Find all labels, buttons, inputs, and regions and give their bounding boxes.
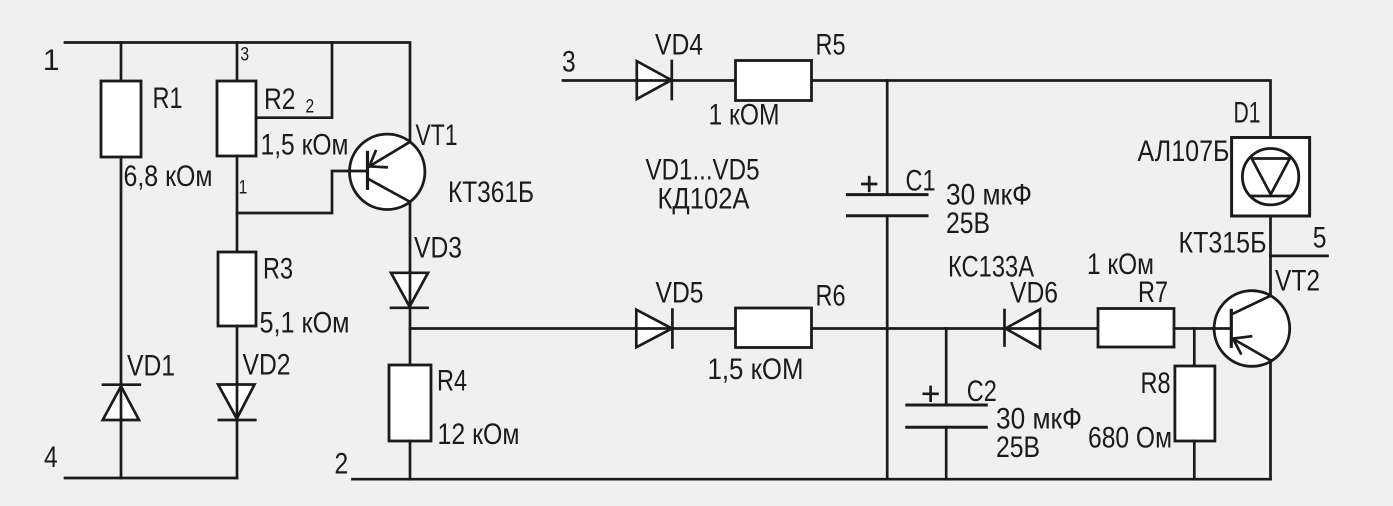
svg-text:R2: R2 (264, 83, 296, 116)
wire R1 bottom to VD1 to rail 4 (120, 157, 123, 478)
wire C2 bottom to rail 2 (945, 427, 948, 479)
svg-text:R7: R7 (1138, 276, 1168, 309)
svg-text:R5: R5 (816, 29, 846, 62)
svg-text:6,8 кОм: 6,8 кОм (124, 160, 213, 193)
wire middle row from VD3 junction to VD5 (410, 327, 636, 330)
wire D1 to VT2 collector (1269, 216, 1272, 296)
diode VD6 КС133А (948, 251, 1058, 310)
wire bottom-left rail terminal 4 (65, 477, 237, 480)
svg-text:12 кОм: 12 кОм (438, 418, 520, 451)
svg-text:R4: R4 (437, 365, 467, 398)
svg-text:5,1 кОм: 5,1 кОм (260, 306, 350, 339)
wire top rail drop to C1 (886, 81, 889, 195)
wire VD4 to R5 (672, 79, 736, 82)
wire VD3 to R4, mid junction (409, 308, 412, 365)
diode VD2 (243, 349, 291, 382)
svg-text:1,5 кОМ: 1,5 кОМ (708, 353, 804, 386)
wire R7 to VT2 base (1174, 327, 1231, 330)
svg-text:D1: D1 (1234, 97, 1261, 130)
transistor VT2 КТ315Б (1179, 226, 1321, 297)
wire R2 bottom pin 1 to R3 (236, 156, 239, 252)
svg-text:680 Ом: 680 Ом (1088, 422, 1172, 455)
svg-text:2: 2 (306, 97, 315, 118)
node 5 terminal stub (1313, 221, 1327, 254)
resistor R6 (736, 308, 812, 348)
svg-text:5: 5 (1313, 221, 1327, 254)
node 4 label (44, 441, 58, 474)
wire R5 to top-right corner into D1 (812, 81, 1271, 138)
diode VD4 (655, 29, 703, 62)
wire VD5 to R6 (672, 327, 735, 330)
diode VD5 (656, 276, 704, 309)
note VD1...VD5 КД102А (646, 153, 760, 215)
svg-text:КТ315Б: КТ315Б (1179, 226, 1267, 259)
svg-text:VD2: VD2 (243, 349, 291, 382)
capacitor C2 (907, 404, 987, 407)
wire R1 top branch (120, 43, 123, 82)
node 1 label (43, 44, 60, 77)
svg-text:R8: R8 (1141, 367, 1171, 400)
wire R2 wiper tap 2 to top rail (256, 43, 332, 118)
wire junction to R8 (1193, 329, 1196, 367)
svg-text:R6: R6 (816, 280, 846, 313)
svg-text:VD1: VD1 (127, 350, 175, 383)
svg-text:VD3: VD3 (414, 232, 462, 265)
svg-text:2: 2 (335, 447, 349, 480)
svg-text:КД102А: КД102А (658, 182, 750, 215)
svg-text:4: 4 (44, 441, 58, 474)
svg-text:C2: C2 (967, 375, 997, 408)
svg-text:R1: R1 (153, 82, 183, 115)
wire R2 top branch with pin 3 (236, 43, 239, 82)
svg-text:C1: C1 (906, 164, 936, 197)
wire C1 bottom to rail 2 (crosses middle wire) (886, 216, 889, 479)
wire R3 bottom to VD2 to rail 4 (236, 326, 239, 478)
svg-text:VT1: VT1 (416, 119, 458, 152)
wire R6 to VD6 (812, 327, 1005, 330)
svg-text:25В: 25В (996, 431, 1040, 464)
wire R8 bottom to rail 2 (1193, 441, 1196, 479)
svg-text:VT2: VT2 (1275, 265, 1320, 298)
svg-text:1 кОМ: 1 кОМ (709, 99, 780, 132)
wire base link from R2/R3 junction to VT1 base (237, 171, 367, 213)
wire VD6 to R7 (1040, 327, 1098, 330)
svg-text:1: 1 (239, 178, 248, 199)
resistor R8 (1175, 366, 1215, 441)
svg-text:R3: R3 (263, 253, 293, 286)
svg-text:25В: 25В (946, 207, 990, 240)
node 3 label (562, 45, 576, 78)
resistor R1 (101, 81, 141, 157)
wire VT1 collector to VD3 (409, 202, 412, 273)
wire middle junction drop to C2 (945, 329, 948, 406)
resistor R5 (736, 61, 812, 101)
svg-text:VD1...VD5: VD1...VD5 (646, 153, 760, 186)
svg-text:VD6: VD6 (1010, 277, 1058, 310)
svg-text:VD5: VD5 (656, 276, 704, 309)
wire terminal 3 to VD4 (563, 79, 637, 82)
wire top-left rail from terminal 1 to VT1 emitter (65, 43, 410, 143)
wire VT2 emitter to rail 2 (1269, 360, 1272, 479)
svg-text:VD4: VD4 (655, 29, 703, 62)
node 2 label (335, 447, 349, 480)
LED D1 АЛ107Б (1138, 97, 1261, 168)
transistor VT1 (350, 134, 425, 209)
resistor R2 (217, 81, 256, 156)
svg-text:1,5 кОм: 1,5 кОм (261, 128, 349, 161)
capacitor C1 (848, 193, 928, 196)
svg-text:КТ361Б: КТ361Б (448, 176, 534, 209)
svg-text:3: 3 (562, 45, 576, 78)
svg-text:АЛ107Б: АЛ107Б (1138, 135, 1230, 168)
wire bottom rail terminal 2 (353, 478, 1271, 481)
diode VD1 (127, 350, 175, 383)
wire R4 bottom to rail 2 (409, 441, 412, 479)
resistor R7 (1098, 309, 1174, 348)
svg-text:3: 3 (240, 44, 249, 65)
svg-text:1: 1 (43, 44, 60, 77)
resistor R4 (389, 365, 431, 441)
diode VD3 (414, 232, 462, 265)
resistor R3 (218, 252, 256, 326)
